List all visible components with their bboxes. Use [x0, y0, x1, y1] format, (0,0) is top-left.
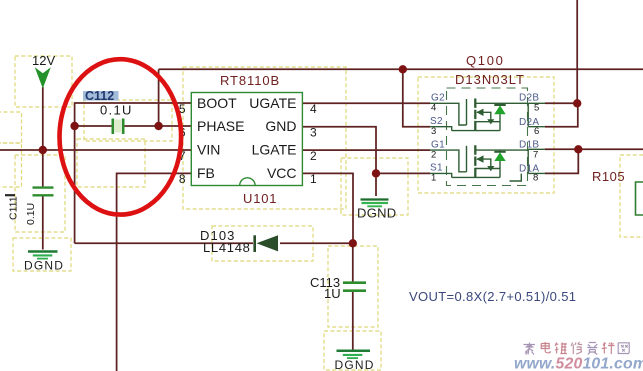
svg-text:3: 3 — [431, 126, 436, 137]
wire UGATE to G2 — [302, 102, 430, 104]
wire C111 top — [42, 150, 44, 187]
notch — [240, 178, 255, 186]
ground DGND under C111 — [24, 252, 64, 273]
highlight box DGND under C111 — [13, 238, 71, 271]
svg-text:2: 2 — [310, 149, 317, 163]
junction VCC/D103/C113 — [349, 239, 357, 247]
wire phase riser — [158, 69, 160, 126]
wire S2 drop — [403, 69, 430, 126]
svg-text:D13N03LT: D13N03LT — [455, 72, 525, 87]
svg-text:4: 4 — [431, 103, 436, 114]
wire LGATE to G1 — [302, 149, 430, 151]
annotation red ellipse — [60, 59, 182, 214]
pin labels — [430, 93, 539, 175]
diode D103 LL4148 — [200, 228, 278, 255]
clipped plate at left edge — [5, 194, 15, 196]
wire output right — [578, 148, 643, 150]
wire D103 cathode side — [75, 242, 253, 244]
ground DGND mid — [357, 200, 396, 221]
wire D103 anode side — [280, 242, 353, 244]
wire D2A net — [545, 103, 578, 126]
highlight box wire fragment left upper — [0, 112, 22, 143]
svg-text:DGND: DGND — [357, 206, 396, 221]
wire BOOT to D103 — [74, 126, 76, 243]
svg-text:6: 6 — [534, 126, 539, 137]
svg-text:C112: C112 — [85, 89, 114, 103]
power symbol 12V — [32, 53, 55, 89]
wire C113 top — [352, 243, 354, 282]
watermark chinese text (vector strokes) — [524, 342, 630, 355]
svg-text:UGATE: UGATE — [249, 95, 296, 111]
wire GND net — [302, 127, 376, 174]
wire C112 left — [75, 125, 112, 127]
wire PHASE net — [159, 125, 191, 127]
wire FB net — [117, 173, 191, 371]
highlight box 12V — [15, 56, 72, 107]
wire DGND mid stub — [375, 173, 377, 196]
svg-text:0.1U: 0.1U — [25, 203, 37, 225]
svg-text:0.1U: 0.1U — [100, 103, 133, 118]
svg-text:2: 2 — [431, 149, 436, 160]
wire C113 bottom — [352, 292, 354, 351]
highlight box C113 — [328, 246, 378, 327]
junction 12V/VIN — [39, 146, 47, 154]
watermark — [514, 342, 643, 371]
junction D1B — [574, 145, 582, 153]
highlight box C111 — [15, 155, 65, 232]
capacitor C111 — [8, 188, 54, 225]
svg-text:VIN: VIN — [197, 142, 220, 158]
wire VCC net — [302, 173, 353, 243]
svg-text:LGATE: LGATE — [252, 142, 297, 158]
svg-text:3: 3 — [310, 125, 317, 139]
svg-text:VOUT=0.8X(2.7+0.51)/0.51: VOUT=0.8X(2.7+0.51)/0.51 — [409, 289, 576, 304]
highlight box C112 — [84, 100, 172, 141]
svg-text:7: 7 — [533, 149, 538, 160]
svg-text:C111: C111 — [8, 196, 20, 220]
wire 12V vertical — [42, 87, 44, 150]
svg-text:BOOT: BOOT — [197, 95, 237, 111]
svg-text:8: 8 — [533, 173, 538, 184]
wire VIN net — [0, 149, 191, 151]
wire C112 right — [124, 125, 159, 127]
wire D1A net — [545, 149, 578, 173]
highlight box U101 — [183, 67, 346, 209]
svg-text:LL4148: LL4148 — [203, 240, 251, 255]
ground DGND under C113 — [335, 351, 375, 371]
highlight box DGND under C113 — [324, 331, 381, 370]
wire top input riser — [576, 0, 578, 103]
svg-text:FB: FB — [197, 165, 215, 181]
mosfet M2 upper — [430, 99, 545, 131]
svg-text:8: 8 — [179, 172, 186, 186]
svg-text:U101: U101 — [243, 191, 277, 206]
junction C112 right — [154, 122, 162, 130]
svg-text:1: 1 — [431, 173, 436, 184]
highlight box R105 — [620, 155, 643, 237]
svg-text:1: 1 — [310, 172, 317, 186]
svg-text:RT8110B: RT8110B — [220, 73, 280, 88]
highlight box D103 — [212, 226, 313, 261]
wire C111 bottom — [42, 197, 44, 250]
highlight box Q100 — [418, 77, 554, 193]
component outline dashed — [447, 88, 528, 186]
svg-text:www.520101.com: www.520101.com — [514, 356, 643, 371]
op-amp U101 chip RT8110B — [179, 73, 317, 206]
svg-text:R105: R105 — [592, 169, 625, 184]
highlight box wire fragment left lower — [0, 143, 22, 187]
wire BOOT net — [75, 103, 191, 126]
resistor R105 partial — [592, 169, 643, 215]
highlight box DGND mid — [341, 158, 408, 215]
svg-text:DGND: DGND — [335, 358, 375, 371]
capacitor C112 — [83, 89, 133, 134]
mosfet M1 lower — [430, 145, 545, 181]
junction phase rail — [399, 65, 407, 73]
transistor Q100 D13N03LT — [430, 53, 545, 186]
wire D2B net — [545, 102, 577, 104]
svg-text:5: 5 — [534, 103, 539, 114]
svg-text:DGND: DGND — [24, 259, 64, 273]
wire D1B net — [545, 148, 578, 150]
svg-text:4: 4 — [310, 102, 317, 116]
svg-text:GND: GND — [265, 118, 296, 134]
wire phase rail — [159, 68, 643, 70]
junction D2B — [573, 99, 581, 107]
svg-text:Q100: Q100 — [466, 53, 505, 68]
capacitor C113 — [310, 275, 366, 301]
svg-text:1U: 1U — [324, 286, 341, 301]
junction C112 left — [70, 122, 78, 130]
svg-text:12V: 12V — [32, 53, 55, 68]
wire S1 net — [376, 172, 430, 174]
junction DGND mid — [372, 169, 380, 177]
highlight box wire C112 area — [77, 139, 145, 187]
svg-text:PHASE: PHASE — [197, 118, 244, 134]
svg-text:VCC: VCC — [267, 165, 297, 181]
